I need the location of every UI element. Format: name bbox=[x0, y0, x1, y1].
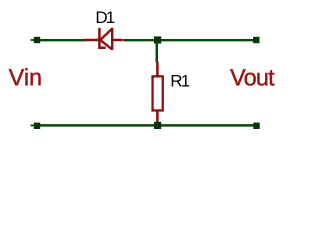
svg-text:D1: D1 bbox=[95, 8, 115, 27]
wire top-left (Vin+ to D1 anode) bbox=[36, 39, 85, 41]
junction node top (R1 top) bbox=[154, 36, 161, 43]
resistor R1 bottom lead bbox=[156, 111, 159, 124]
node Vin+ terminal square bbox=[34, 37, 40, 43]
node Vout+ terminal square bbox=[253, 37, 259, 43]
diode D1 right lead bbox=[112, 39, 123, 42]
diode D1 triangle edges bbox=[100, 29, 112, 50]
diode D1 cathode bar with zener hook bbox=[99, 28, 105, 48]
diode D1 triangle base bar bbox=[111, 28, 113, 50]
diode D1 triangle fill bbox=[100, 28, 112, 50]
svg-text:Vout: Vout bbox=[230, 64, 275, 90]
wire bottom (Vin- to Vout-) bbox=[36, 124, 257, 127]
svg-text:Vin: Vin bbox=[9, 64, 43, 90]
junction node bottom (R1 bottom) bbox=[154, 122, 161, 129]
svg-text:R1: R1 bbox=[170, 72, 190, 91]
wire vertical (top junction to R1) bbox=[156, 42, 159, 63]
diode D1 left lead bbox=[84, 39, 99, 42]
node Vin- terminal square bbox=[34, 123, 40, 129]
resistor R1 top lead bbox=[156, 62, 159, 77]
node Vin- terminal pin stub bbox=[31, 124, 35, 126]
node Vin+ terminal pin stub bbox=[31, 39, 35, 41]
resistor R1 body bbox=[153, 76, 163, 110]
wire top-right (D1 cathode to Vout+) bbox=[123, 39, 257, 41]
node Vout- terminal square bbox=[253, 123, 259, 129]
